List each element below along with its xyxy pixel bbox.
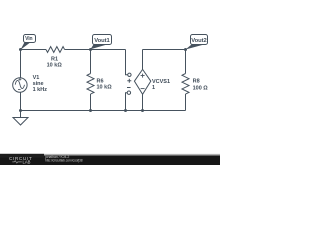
junction dot: Vout2 node <box>184 48 187 51</box>
label R1 value <box>47 57 63 69</box>
label V1 value <box>33 75 48 93</box>
junction dot: Vout1 node <box>89 48 92 51</box>
watermark bar <box>0 154 220 166</box>
svg-text:VCVS1: VCVS1 <box>152 79 170 85</box>
svg-text:1 kHz: 1 kHz <box>33 87 48 93</box>
svg-text:100 Ω: 100 Ω <box>193 85 209 91</box>
svg-text:Vout2: Vout2 <box>191 38 206 44</box>
wire: top rail right segment (VCVS top corner to Vout2 node) <box>143 49 186 51</box>
svg-text:1: 1 <box>152 85 155 91</box>
junction dot: R6 bottom <box>89 109 92 112</box>
svg-text:htto://circuitlab.corn/csd/j38: htto://circuitlab.corn/csd/j38 <box>45 158 83 162</box>
resistor R6 (zigzag) <box>87 74 94 95</box>
resistor R8 (zigzag) <box>182 74 189 95</box>
watermark CircuitLab logo <box>9 156 32 165</box>
svg-text:10 kΩ: 10 kΩ <box>97 84 113 90</box>
svg-text:10 kΩ: 10 kΩ <box>47 62 63 68</box>
VCVS1 control terminal + (open circle) <box>128 73 131 76</box>
V1 minus sign <box>18 88 21 90</box>
wire: left vertical top (Vin node to V1 top) <box>20 50 22 78</box>
svg-text:Vout1: Vout1 <box>94 38 110 44</box>
VCVS1 internal minus sign <box>141 88 145 90</box>
wire: control plus drop (top rail down to + terminal) <box>126 50 128 75</box>
node flag Vout1 (rounded box) <box>91 35 112 50</box>
VCVS1 control minus sign <box>127 87 131 89</box>
resistor R1 (zigzag) <box>46 47 65 53</box>
wire: R8 top lead (Vout2 node down to R8) <box>185 50 187 74</box>
watermark user text <box>44 155 83 163</box>
VCVS1 diamond body <box>134 69 150 94</box>
V1 plus sign <box>19 78 22 81</box>
svg-text:LAB: LAB <box>23 160 31 165</box>
label R6 value <box>97 78 113 90</box>
junction dot: VCVS bottom at rail <box>141 109 144 112</box>
wire: bottom rail <box>21 110 186 112</box>
voltage source V1 (circle) <box>13 78 27 92</box>
svg-text:R8: R8 <box>193 78 200 84</box>
label R8 value <box>193 78 209 91</box>
wire: top rail left segment (Vin node through R1 to VCVS control) <box>21 49 126 51</box>
junction dot: control minus at rail <box>124 109 127 112</box>
wire: R8 bottom lead <box>185 94 187 111</box>
junction dot: Vin node <box>19 48 22 51</box>
svg-text:V1: V1 <box>33 75 40 81</box>
VCVS1 control plus sign <box>127 79 131 83</box>
wire: R6 bottom lead <box>90 94 92 111</box>
wire: VCVS output bottom (diamond bottom to bottom rail) <box>142 94 144 110</box>
node flag Vout2 (rounded box) <box>186 35 208 50</box>
svg-text:Vin: Vin <box>25 36 32 42</box>
junction dot: ground rail left <box>19 109 22 112</box>
VCVS1 control terminal - (open circle) <box>127 91 130 94</box>
V1 sine wave symbol <box>15 80 24 88</box>
wire: VCVS output top (diamond top to top rail corner) <box>142 50 144 70</box>
label VCVS1 value <box>152 79 170 91</box>
wire: R6 top lead (Vout1 node down to R6) <box>90 50 92 74</box>
wire: left vertical bottom (V1 bottom to ground rail) <box>20 92 22 110</box>
VCVS1 internal plus sign <box>141 74 145 78</box>
wire: control minus drop (- terminal down to bottom rail) <box>126 93 128 111</box>
ground (triangle) <box>13 111 28 126</box>
node flag Vin (rounded box) <box>21 35 36 50</box>
